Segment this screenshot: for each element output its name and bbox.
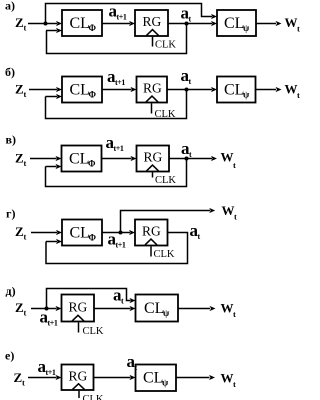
- wire CLphi to RG: [102, 232, 130, 234]
- wire a_t+1 to Wt output top: [121, 211, 211, 233]
- svg-text:t+1: t+1: [115, 78, 125, 87]
- op block CL phi U5: [62, 146, 102, 172]
- wire Zt to CLphi: [31, 232, 57, 234]
- svg-text:W: W: [221, 150, 234, 165]
- wire Zt to RG: [28, 377, 57, 379]
- svg-text:W: W: [285, 82, 298, 97]
- wire feedback into CLphi second input: [46, 166, 57, 168]
- clock edge triangle: [146, 96, 158, 102]
- CLK line: [151, 103, 153, 113]
- wire RG to Wt: [169, 158, 212, 160]
- wire RG to CLpsi: [94, 308, 131, 310]
- svg-text:t: t: [24, 89, 27, 99]
- register RG3: [137, 146, 170, 172]
- wire CLphi to RG: [102, 89, 132, 91]
- register RG4: [135, 220, 168, 246]
- svg-text:W: W: [221, 371, 234, 386]
- wire RG to CLpsi: [94, 377, 131, 379]
- node a_t+1 junction: [45, 307, 49, 311]
- node a_t junction: [185, 157, 189, 161]
- wire feedback a_t loop: [47, 24, 187, 54]
- svg-text:CL: CL: [143, 370, 163, 387]
- svg-text:Φ: Φ: [89, 23, 97, 33]
- clock edge triangle: [147, 30, 159, 36]
- svg-text:CLK: CLK: [155, 175, 176, 186]
- wire feedback into CLphi second input: [46, 96, 58, 98]
- node a_t junction: [185, 22, 189, 26]
- svg-text:CLK: CLK: [83, 326, 104, 337]
- svg-text:д): д): [6, 284, 16, 298]
- wire CLphi to RG: [102, 23, 130, 25]
- wire CLpsi output: [178, 308, 210, 310]
- svg-text:t: t: [198, 232, 201, 241]
- svg-text:t+1: t+1: [46, 368, 56, 377]
- svg-text:г): г): [6, 207, 15, 221]
- svg-text:б): б): [5, 65, 15, 79]
- svg-text:t: t: [234, 212, 237, 222]
- svg-text:RG: RG: [143, 81, 162, 96]
- svg-text:t: t: [22, 378, 25, 388]
- clock edge triangle: [145, 239, 157, 245]
- svg-text:Φ: Φ: [89, 90, 97, 100]
- wire RG to CLpsi: [168, 23, 212, 25]
- wire CLpsi output: [256, 89, 277, 91]
- wire CLpsi output: [176, 377, 210, 379]
- wire Zt to CLphi: [28, 23, 57, 25]
- op block CL phi U1: [62, 10, 102, 36]
- clock edge triangle: [73, 384, 85, 390]
- svg-text:t+1: t+1: [117, 13, 127, 22]
- clock edge triangle: [147, 165, 159, 171]
- svg-text:t: t: [121, 297, 124, 306]
- svg-text:CL: CL: [144, 300, 164, 317]
- svg-text:ψ: ψ: [243, 23, 250, 33]
- svg-text:е): е): [5, 349, 14, 363]
- svg-text:а): а): [5, 0, 15, 13]
- svg-text:CL: CL: [70, 82, 90, 99]
- wire Zt to CLpsi top path: [46, 4, 213, 24]
- svg-text:CLK: CLK: [155, 109, 176, 120]
- svg-text:RG: RG: [143, 14, 162, 29]
- svg-text:W: W: [221, 301, 234, 316]
- op block CL psi U8: [136, 365, 177, 392]
- register RG5: [62, 295, 95, 322]
- wire feedback a_t loop: [46, 90, 187, 119]
- svg-text:t+1: t+1: [48, 319, 58, 328]
- svg-text:Φ: Φ: [88, 159, 96, 169]
- wire CLphi to RG: [102, 158, 132, 160]
- svg-text:Φ: Φ: [89, 233, 97, 243]
- svg-text:CL: CL: [224, 15, 244, 32]
- svg-text:ψ: ψ: [243, 90, 250, 100]
- wire Zt to CLphi: [29, 89, 57, 91]
- CLK line: [152, 172, 154, 177]
- svg-text:RG: RG: [144, 150, 163, 165]
- wire Zt to CLphi: [30, 158, 57, 160]
- svg-text:t: t: [24, 158, 27, 168]
- CLK line: [152, 37, 154, 47]
- svg-text:CLK: CLK: [154, 249, 175, 260]
- svg-text:t: t: [24, 232, 27, 242]
- op block CL psi U7: [136, 295, 179, 322]
- wire RG to CLpsi: [167, 89, 212, 91]
- svg-text:CL: CL: [224, 82, 244, 99]
- svg-text:t: t: [233, 160, 236, 170]
- node Zt junction: [44, 22, 48, 26]
- svg-text:CL: CL: [70, 225, 90, 242]
- svg-text:RG: RG: [142, 224, 161, 239]
- node a_t junction: [185, 88, 189, 92]
- svg-text:CLK: CLK: [83, 394, 104, 400]
- svg-text:W: W: [285, 15, 298, 30]
- svg-text:RG: RG: [69, 369, 88, 384]
- register RG6: [62, 365, 94, 391]
- svg-text:t: t: [233, 309, 236, 319]
- svg-text:t+1: t+1: [116, 241, 126, 250]
- wire Zt to CLpsi top path: [47, 289, 131, 309]
- op block CL phi U3: [62, 77, 102, 103]
- svg-text:CL: CL: [69, 151, 89, 168]
- svg-text:t+1: t+1: [114, 144, 124, 153]
- clock edge triangle: [72, 315, 84, 321]
- CLK line: [150, 246, 152, 256]
- register RG1: [135, 10, 168, 36]
- svg-text:t: t: [24, 23, 27, 33]
- svg-text:W: W: [222, 203, 235, 218]
- svg-text:t: t: [297, 90, 300, 100]
- svg-text:t: t: [24, 308, 27, 318]
- register RG2: [137, 77, 168, 103]
- svg-text:t: t: [297, 24, 300, 34]
- wire RG a_t feedback loop: [46, 233, 188, 264]
- op block CL psi U4: [217, 77, 256, 103]
- wire feedback into CLphi second input: [46, 241, 57, 243]
- svg-text:t: t: [233, 379, 236, 389]
- svg-text:RG: RG: [69, 300, 88, 315]
- svg-text:CL: CL: [70, 15, 90, 32]
- CLK line: [78, 323, 80, 333]
- svg-text:ψ: ψ: [163, 308, 170, 318]
- CLK line: [78, 391, 80, 398]
- op block CL phi U6: [62, 220, 102, 246]
- svg-text:CLK: CLK: [155, 40, 176, 51]
- op block CL psi U2: [217, 10, 256, 36]
- wire feedback a_t loop: [46, 159, 187, 187]
- svg-text:t: t: [189, 15, 192, 24]
- svg-text:t: t: [189, 150, 192, 159]
- svg-text:t: t: [189, 77, 192, 86]
- node a_t+1 junction: [119, 231, 123, 235]
- wire CLpsi output: [256, 23, 276, 25]
- wire Zt to RG: [31, 308, 57, 310]
- wire feedback into CLphi second input: [46, 30, 57, 32]
- svg-text:в): в): [6, 133, 16, 147]
- svg-text:ψ: ψ: [162, 378, 169, 388]
